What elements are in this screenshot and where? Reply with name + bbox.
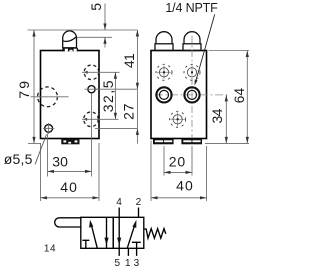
svg-text:64: 64 xyxy=(231,88,247,104)
svg-text:32,5: 32,5 xyxy=(100,79,116,112)
svg-text:2: 2 xyxy=(136,197,142,208)
svg-text:1/4 NPTF: 1/4 NPTF xyxy=(165,1,218,15)
svg-text:4: 4 xyxy=(116,197,122,208)
svg-text:79: 79 xyxy=(16,79,32,99)
svg-text:27: 27 xyxy=(120,103,136,120)
svg-text:34: 34 xyxy=(209,108,225,123)
svg-text:3: 3 xyxy=(134,258,140,269)
svg-text:14: 14 xyxy=(44,244,56,255)
svg-text:40: 40 xyxy=(60,179,78,195)
svg-text:ø5,5: ø5,5 xyxy=(4,151,33,167)
svg-text:30: 30 xyxy=(52,153,68,169)
svg-text:5: 5 xyxy=(88,3,104,11)
svg-text:5: 5 xyxy=(115,258,121,269)
svg-text:41: 41 xyxy=(121,53,137,68)
svg-text:40: 40 xyxy=(176,178,194,194)
svg-text:1: 1 xyxy=(125,258,131,269)
svg-text:20: 20 xyxy=(169,154,186,170)
